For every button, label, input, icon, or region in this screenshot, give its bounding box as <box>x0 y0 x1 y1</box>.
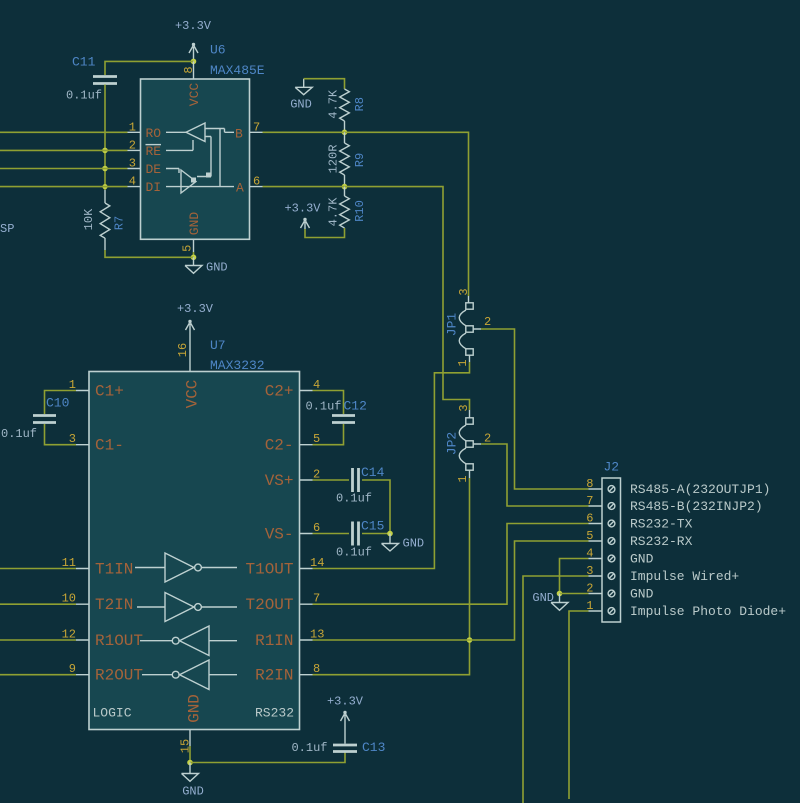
junction B/R8/R9 <box>342 130 348 136</box>
wire T1IN row <box>0 568 76 570</box>
U6 left pin stubs 1-4 <box>128 132 141 186</box>
svg-text:C15: C15 <box>361 519 384 534</box>
svg-text:T2IN: T2IN <box>95 596 133 614</box>
svg-text:GND: GND <box>290 98 312 112</box>
svg-text:+3.3V: +3.3V <box>177 302 214 316</box>
wire C11 to U6 pin8 <box>105 61 194 75</box>
wire R8 to B row <box>344 121 346 132</box>
svg-text:2: 2 <box>129 138 136 152</box>
svg-text:GND: GND <box>182 785 204 799</box>
resistor R7 <box>82 203 127 238</box>
svg-text:10K: 10K <box>82 208 96 230</box>
svg-text:7: 7 <box>586 494 593 508</box>
svg-text:SP: SP <box>0 222 14 236</box>
svg-text:C12: C12 <box>344 399 367 414</box>
wire R2OUT row <box>0 674 76 676</box>
svg-text:C2+: C2+ <box>265 383 294 401</box>
svg-text:MAX485E: MAX485E <box>210 63 265 78</box>
svg-text:R7: R7 <box>113 216 127 230</box>
svg-text:VS-: VS- <box>265 526 294 544</box>
junction J2 GND <box>557 591 563 597</box>
svg-text:2: 2 <box>484 315 491 329</box>
U7 bottom pin15 stub <box>189 730 191 747</box>
svg-text:C14: C14 <box>361 465 385 480</box>
svg-text:RS485-A(232OUTJP1): RS485-A(232OUTJP1) <box>630 482 770 497</box>
svg-text:R2OUT: R2OUT <box>95 667 143 685</box>
U6 right pin stubs 7 6 <box>250 132 263 186</box>
J2 pad 1 <box>608 608 615 615</box>
power +3.3V (below R10) <box>284 202 321 230</box>
wire R7 bottom to U6 GND node <box>104 238 106 250</box>
svg-text:RS232: RS232 <box>255 706 294 721</box>
svg-text:1: 1 <box>456 359 470 366</box>
svg-text:1: 1 <box>456 475 470 482</box>
svg-text:0.1uf: 0.1uf <box>291 741 327 755</box>
wire J2 pin2 to GND junction <box>560 593 589 595</box>
svg-text:3: 3 <box>586 564 593 578</box>
ground (below U6) <box>185 257 228 274</box>
wire pin15 to GND junction <box>189 746 191 763</box>
jumper JP1 <box>445 296 482 362</box>
svg-text:0.1uf: 0.1uf <box>336 492 372 506</box>
svg-text:0.1uf: 0.1uf <box>306 400 342 414</box>
svg-text:0.1uf: 0.1uf <box>1 427 37 441</box>
svg-text:5: 5 <box>586 529 593 543</box>
power +3.3V (top, U7) <box>177 302 214 372</box>
wire J2 pin4 to GND junction <box>560 559 589 594</box>
svg-text:8: 8 <box>586 477 593 491</box>
svg-text:GND: GND <box>630 552 654 567</box>
svg-text:C11: C11 <box>72 55 96 70</box>
U7 left stubs <box>76 391 89 675</box>
wire DE to left edge <box>0 168 128 170</box>
svg-text:Impulse Photo Diode+: Impulse Photo Diode+ <box>630 604 786 619</box>
junction JP2 pin1 / R1IN net <box>467 637 473 643</box>
svg-text:4: 4 <box>586 547 593 561</box>
svg-text:VS+: VS+ <box>265 472 294 490</box>
resistor R8 <box>327 89 367 121</box>
svg-text:3: 3 <box>129 157 136 171</box>
junction C14/C15 GND <box>387 531 393 537</box>
U7 right stubs <box>300 391 313 675</box>
U7 internal buffer T2 <box>137 593 237 622</box>
capacitor C12 <box>306 391 367 445</box>
junction A/R9/R10 <box>342 184 348 190</box>
wire A net: U6 pin6 to JP2 pin3 <box>263 187 470 410</box>
ground (right of C15) <box>382 534 425 552</box>
svg-text:Impulse Wired+: Impulse Wired+ <box>630 569 739 584</box>
wire J2 pin1 Impulse Photo Diode+ <box>569 611 589 799</box>
svg-text:MAX3232: MAX3232 <box>210 358 265 373</box>
svg-text:4.7K: 4.7K <box>327 197 341 227</box>
connector J2 <box>602 460 621 623</box>
svg-text:R9: R9 <box>353 153 367 167</box>
U7 internal buffer R2 <box>142 660 237 690</box>
svg-text:8: 8 <box>182 66 196 73</box>
capacitor C15 <box>313 519 391 560</box>
svg-text:GND: GND <box>187 212 202 236</box>
wire JP2 pin2 to J2 pin7 <box>481 444 589 506</box>
svg-text:B: B <box>235 127 243 142</box>
wire R1OUT row <box>0 639 76 641</box>
ground (left of J2) <box>532 591 568 610</box>
resistor R9 <box>327 132 367 175</box>
svg-text:7: 7 <box>253 120 260 134</box>
svg-text:U7: U7 <box>210 338 226 353</box>
svg-text:R10: R10 <box>353 200 367 222</box>
junction RE node <box>102 148 108 154</box>
svg-text:JP1: JP1 <box>445 313 460 337</box>
svg-text:4: 4 <box>129 175 136 189</box>
svg-text:C13: C13 <box>362 740 385 755</box>
capacitor C11 <box>66 55 117 103</box>
capacitor C14 <box>313 465 391 534</box>
svg-text:C1+: C1+ <box>95 383 124 401</box>
ground (above R8) <box>290 79 312 112</box>
svg-text:R2IN: R2IN <box>255 667 293 685</box>
J2 pad 8 <box>608 486 615 493</box>
J2 pad 4 <box>608 555 615 562</box>
svg-text:2: 2 <box>586 582 593 596</box>
wire C11 bottom to RE/DE/R7 <box>104 85 106 191</box>
wire J2 pin3 Impulse Wired+ <box>523 576 589 803</box>
svg-text:GND: GND <box>206 261 228 275</box>
svg-text:J2: J2 <box>604 460 620 475</box>
junction U6 VCC node <box>191 59 197 65</box>
wire U6 pin5 to GND <box>193 252 195 257</box>
svg-text:16: 16 <box>176 343 190 357</box>
J2 pin stubs <box>589 489 603 611</box>
svg-text:3: 3 <box>457 404 471 411</box>
J2 pad 3 <box>608 573 615 580</box>
wire R10 bottom to +3.3V <box>305 228 345 238</box>
svg-text:6: 6 <box>253 175 260 189</box>
svg-text:RS232-RX: RS232-RX <box>630 534 693 549</box>
svg-text:0.1uf: 0.1uf <box>66 89 102 103</box>
wire R9 to A row <box>344 175 346 187</box>
J2 pad 6 <box>608 520 615 527</box>
svg-text:DE: DE <box>146 162 162 177</box>
svg-text:T1OUT: T1OUT <box>245 561 293 579</box>
junction DI node <box>102 184 107 189</box>
svg-text:RE: RE <box>146 144 162 159</box>
op-amp U6 MAX485E body <box>141 79 250 239</box>
U6 internal receiver triangle <box>186 123 205 142</box>
svg-text:RS232-TX: RS232-TX <box>630 517 693 532</box>
svg-text:1: 1 <box>586 599 593 613</box>
svg-text:DI: DI <box>146 180 162 195</box>
svg-text:U6: U6 <box>210 43 226 58</box>
wire JP1 pin1 to T1OUT <box>313 362 470 569</box>
U6 pin8 stub <box>193 61 195 79</box>
svg-text:VCC: VCC <box>184 380 202 409</box>
U6 bottom pin5 stub <box>193 239 195 252</box>
ground (below U7) <box>182 763 204 799</box>
svg-text:T2OUT: T2OUT <box>245 596 293 614</box>
wire B net: U6 pin7 to JP1 pin3 <box>263 132 469 296</box>
wire RE to left edge <box>0 149 128 151</box>
U7 internal buffer R1 <box>140 626 237 656</box>
wire JP2 pin1 down to R2IN row <box>313 478 470 675</box>
resistor R10 <box>327 187 367 228</box>
junction U6 GND node <box>191 254 197 260</box>
U6 internal wiring <box>166 129 234 187</box>
capacitor C13 <box>291 740 385 755</box>
J2 pad 5 <box>608 538 615 545</box>
svg-text:5: 5 <box>181 245 195 252</box>
junction DE node <box>102 166 108 172</box>
jumper JP2 <box>445 410 482 478</box>
J2 pad 2 <box>608 590 615 597</box>
power +3.3V (top, U6) <box>175 19 212 61</box>
capacitor C10 <box>1 391 76 445</box>
wire GND to R8 top <box>304 79 345 89</box>
op-amp U7 MAX3232 body <box>89 372 300 730</box>
power +3.3V (above C13) <box>327 695 364 744</box>
svg-text:6: 6 <box>586 512 593 526</box>
wire RO to left edge <box>0 131 128 133</box>
svg-text:T1IN: T1IN <box>95 561 133 579</box>
svg-text:RS485-B(232INJP2): RS485-B(232INJP2) <box>630 499 763 514</box>
svg-text:LOGIC: LOGIC <box>93 706 132 721</box>
svg-text:3: 3 <box>457 288 471 295</box>
wire JP1 pin2 to J2 pin8 <box>481 329 589 489</box>
svg-text:0.1uf: 0.1uf <box>336 546 372 560</box>
svg-text:C10: C10 <box>46 396 69 411</box>
junction U7 GND / C13 <box>187 760 193 766</box>
svg-text:C1-: C1- <box>95 437 124 455</box>
U6 internal driver triangle <box>181 170 196 193</box>
svg-text:R8: R8 <box>353 97 367 111</box>
svg-text:+3.3V: +3.3V <box>284 202 321 216</box>
svg-text:+3.3V: +3.3V <box>327 695 364 709</box>
wire junction to C13 <box>190 752 345 763</box>
wire T2IN row <box>0 603 76 605</box>
wire DI to left edge <box>0 186 128 188</box>
svg-text:GND: GND <box>403 537 425 551</box>
svg-text:120R: 120R <box>327 145 341 174</box>
svg-text:GND: GND <box>186 694 204 723</box>
svg-text:VCC: VCC <box>187 83 202 107</box>
wire R1IN to J2 pin5 <box>313 541 589 640</box>
svg-text:GND: GND <box>630 587 654 602</box>
svg-text:C2-: C2- <box>265 437 294 455</box>
svg-text:+3.3V: +3.3V <box>175 19 212 33</box>
svg-text:R1OUT: R1OUT <box>95 632 143 650</box>
svg-text:R1IN: R1IN <box>255 632 293 650</box>
U7 internal buffer T1 <box>135 553 237 582</box>
svg-text:1: 1 <box>129 120 136 134</box>
svg-text:JP2: JP2 <box>445 432 460 455</box>
svg-text:RO: RO <box>146 126 162 141</box>
J2 pad 7 <box>608 503 615 510</box>
svg-text:4.7K: 4.7K <box>327 89 341 119</box>
wire T2OUT to J2 pin6 <box>313 524 589 605</box>
svg-text:A: A <box>236 181 244 196</box>
